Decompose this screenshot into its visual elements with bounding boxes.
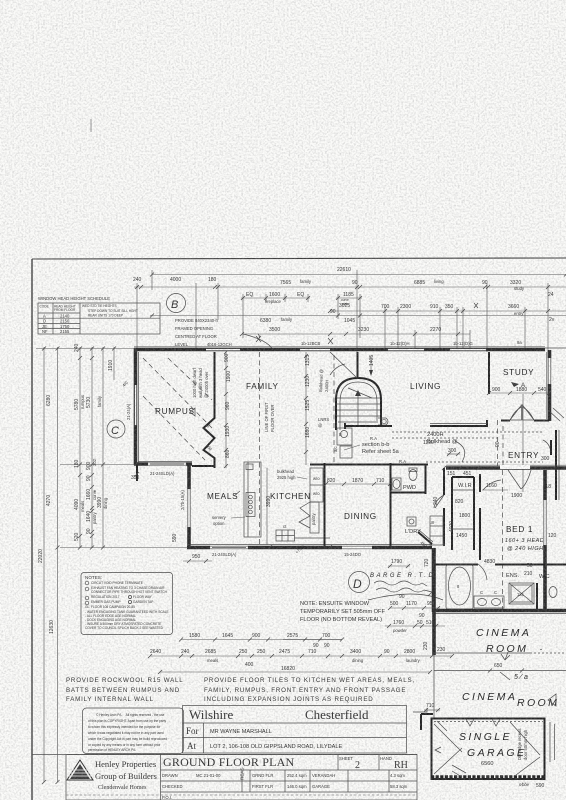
bath xyxy=(446,565,473,609)
stair bottom tab xyxy=(378,418,388,425)
entry east wall windows xyxy=(555,430,557,500)
bed east wall xyxy=(543,470,547,612)
sheet left border xyxy=(31,259,33,800)
scan edge artifact top-left xyxy=(90,119,92,132)
west wall step 350 xyxy=(136,464,138,481)
bottom external wall meals-dining xyxy=(187,546,432,550)
top external wall xyxy=(134,348,545,352)
dim row EQ line xyxy=(241,297,310,299)
garage truss marks xyxy=(466,719,474,726)
vanity two basins xyxy=(474,596,504,608)
door arc family opening xyxy=(243,334,273,350)
line of first floor over (dashed) xyxy=(259,352,261,545)
linen closet xyxy=(430,516,443,545)
dim row long 6380 xyxy=(150,315,566,317)
dim row B line xyxy=(134,286,566,288)
top wall window gaps (thin) xyxy=(206,349,240,351)
dims 900 1880 540 xyxy=(489,392,549,394)
dim 3990 column xyxy=(266,468,268,545)
kitchen bottom bench ct xyxy=(276,530,295,541)
stair center arrow xyxy=(357,392,359,426)
shrub symbol + 650 xyxy=(501,652,510,660)
circle D datum xyxy=(349,572,370,593)
sheet top border xyxy=(32,258,566,259)
rumpus dashed ceiling diagonals xyxy=(143,358,212,428)
garage diagonals xyxy=(434,724,462,752)
dims 820 1870 710 xyxy=(326,483,390,485)
circle C datum xyxy=(107,420,125,438)
cupboard under stair xyxy=(337,428,352,445)
meals west external wall xyxy=(187,464,191,549)
rumpus bottom wall xyxy=(134,462,192,466)
wall meals-rumpus link xyxy=(192,465,215,467)
front door arc xyxy=(543,440,551,455)
extension verticals xyxy=(151,270,153,290)
kitchen-dining wall xyxy=(324,463,326,546)
hall west wall (wir wing) xyxy=(443,468,445,495)
dim 1405 xyxy=(370,356,372,374)
tub xyxy=(407,517,416,526)
corner porch right of title xyxy=(413,708,427,712)
window sill marks xyxy=(256,334,261,342)
garage walls xyxy=(432,719,545,780)
leader curve from ens note xyxy=(368,594,443,600)
ens west wall xyxy=(432,548,436,612)
right edge marks xyxy=(549,722,551,762)
shower xyxy=(509,583,534,604)
kitchen right cabinets xyxy=(310,468,323,502)
dim 1315 1230 1525 1680 column x306 xyxy=(305,352,307,465)
toilet xyxy=(409,470,417,481)
dim row 3500/3230/2270 xyxy=(242,333,470,335)
bulkhead dashed xyxy=(392,431,544,433)
living bottom wall xyxy=(345,425,392,427)
ens bottom external wall xyxy=(432,609,566,613)
dining west wall = kitchen wall above; dining east wall xyxy=(390,463,392,546)
scan speckle overlay xyxy=(0,246,566,800)
study west wall xyxy=(488,352,490,394)
diagonal rail xyxy=(330,352,357,378)
entry bottom wall xyxy=(446,466,566,470)
wall above stair xyxy=(357,352,359,378)
dashed roof line bed xyxy=(502,470,504,612)
basin xyxy=(393,480,400,489)
garage bottom hatched wall xyxy=(431,775,546,780)
island bench xyxy=(244,462,261,537)
circle B datum xyxy=(167,294,186,313)
logo Henley triangle xyxy=(67,760,93,780)
dim row 22610 xyxy=(152,274,566,276)
rumpus east wall with zigzag xyxy=(204,352,215,468)
pwd/dining top wall xyxy=(391,464,428,466)
ldry door diagonal xyxy=(418,532,432,544)
boundary line 1 xyxy=(434,652,530,654)
wing west wall lower xyxy=(432,548,436,655)
west external wall rumpus xyxy=(134,348,138,465)
boundary line 2 xyxy=(434,670,566,672)
dashed first floor line at stair xyxy=(333,355,335,462)
ens top wall xyxy=(432,564,478,566)
west wall window gap xyxy=(135,385,137,425)
stair curved wall xyxy=(336,378,381,430)
stair treads xyxy=(337,397,380,399)
hall door arc xyxy=(483,480,501,490)
study south wall + double doors xyxy=(501,420,510,422)
study east wall xyxy=(548,350,552,421)
interior dim column x226 xyxy=(225,352,227,468)
porch dashed line xyxy=(497,420,499,466)
dim row C line right xyxy=(330,310,566,312)
family-kitchen top wall xyxy=(310,464,391,466)
